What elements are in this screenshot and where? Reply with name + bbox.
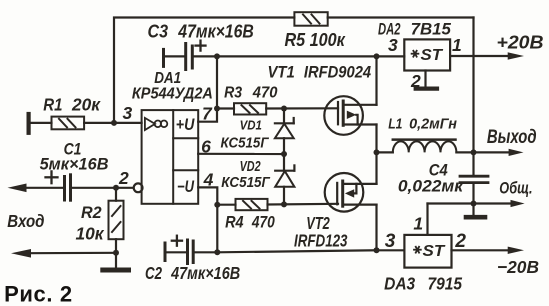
svg-text:2: 2 <box>118 168 129 188</box>
svg-text:VD2: VD2 <box>240 159 261 175</box>
svg-text:3: 3 <box>388 35 398 55</box>
svg-text:4: 4 <box>203 169 214 189</box>
svg-text:−U: −U <box>177 178 195 196</box>
svg-text:R2: R2 <box>81 203 102 222</box>
svg-text:47мк×16В: 47мк×16В <box>170 263 240 283</box>
svg-text:R1: R1 <box>43 95 62 115</box>
svg-text:+20В: +20В <box>497 31 544 52</box>
svg-text:VD1: VD1 <box>240 118 262 133</box>
svg-text:Выход: Выход <box>487 127 537 148</box>
svg-text:Общ.: Общ. <box>499 179 532 198</box>
svg-text:R5 100к: R5 100к <box>285 30 346 50</box>
svg-text:0,2мГн: 0,2мГн <box>409 116 457 133</box>
svg-text:2: 2 <box>454 231 466 252</box>
svg-text:2: 2 <box>410 71 421 91</box>
svg-text:10к: 10к <box>76 224 105 244</box>
svg-text:0,022мк: 0,022мк <box>398 178 465 196</box>
svg-text:1: 1 <box>452 35 462 55</box>
svg-text:7915: 7915 <box>428 274 463 294</box>
svg-text:+U: +U <box>176 116 195 134</box>
svg-text:5мк×16В: 5мк×16В <box>40 155 109 174</box>
svg-text:L1: L1 <box>388 116 402 133</box>
svg-text:R3: R3 <box>224 85 242 102</box>
svg-text:3: 3 <box>123 103 133 123</box>
svg-text:C3: C3 <box>148 21 169 41</box>
svg-text:IRFD123: IRFD123 <box>294 230 348 250</box>
svg-text:IRFD9024: IRFD9024 <box>304 62 372 81</box>
svg-text:3: 3 <box>385 231 396 252</box>
svg-text:47мк×16В: 47мк×16В <box>177 22 253 42</box>
svg-text:ST: ST <box>423 243 446 260</box>
svg-text:Вход: Вход <box>7 211 44 231</box>
svg-text:КР544УД2А: КР544УД2А <box>132 86 213 103</box>
svg-text:Рис. 2: Рис. 2 <box>4 282 72 306</box>
svg-text:КС515Г: КС515Г <box>221 136 270 152</box>
svg-text:R4: R4 <box>225 212 244 231</box>
svg-text:7В15: 7В15 <box>411 21 452 39</box>
svg-text:DA1: DA1 <box>154 70 181 87</box>
svg-text:1: 1 <box>413 214 423 234</box>
svg-text:470: 470 <box>251 212 275 231</box>
svg-text:C2: C2 <box>145 263 162 283</box>
svg-text:КС515Г: КС515Г <box>221 175 271 191</box>
svg-text:7: 7 <box>202 103 213 123</box>
svg-text:DA3: DA3 <box>384 274 415 294</box>
svg-text:−20В: −20В <box>497 257 539 277</box>
svg-text:6: 6 <box>201 136 211 156</box>
svg-text:20к: 20к <box>71 95 101 115</box>
svg-text:470: 470 <box>252 85 278 102</box>
svg-text:ST: ST <box>421 47 444 64</box>
svg-text:VT1: VT1 <box>268 62 295 81</box>
